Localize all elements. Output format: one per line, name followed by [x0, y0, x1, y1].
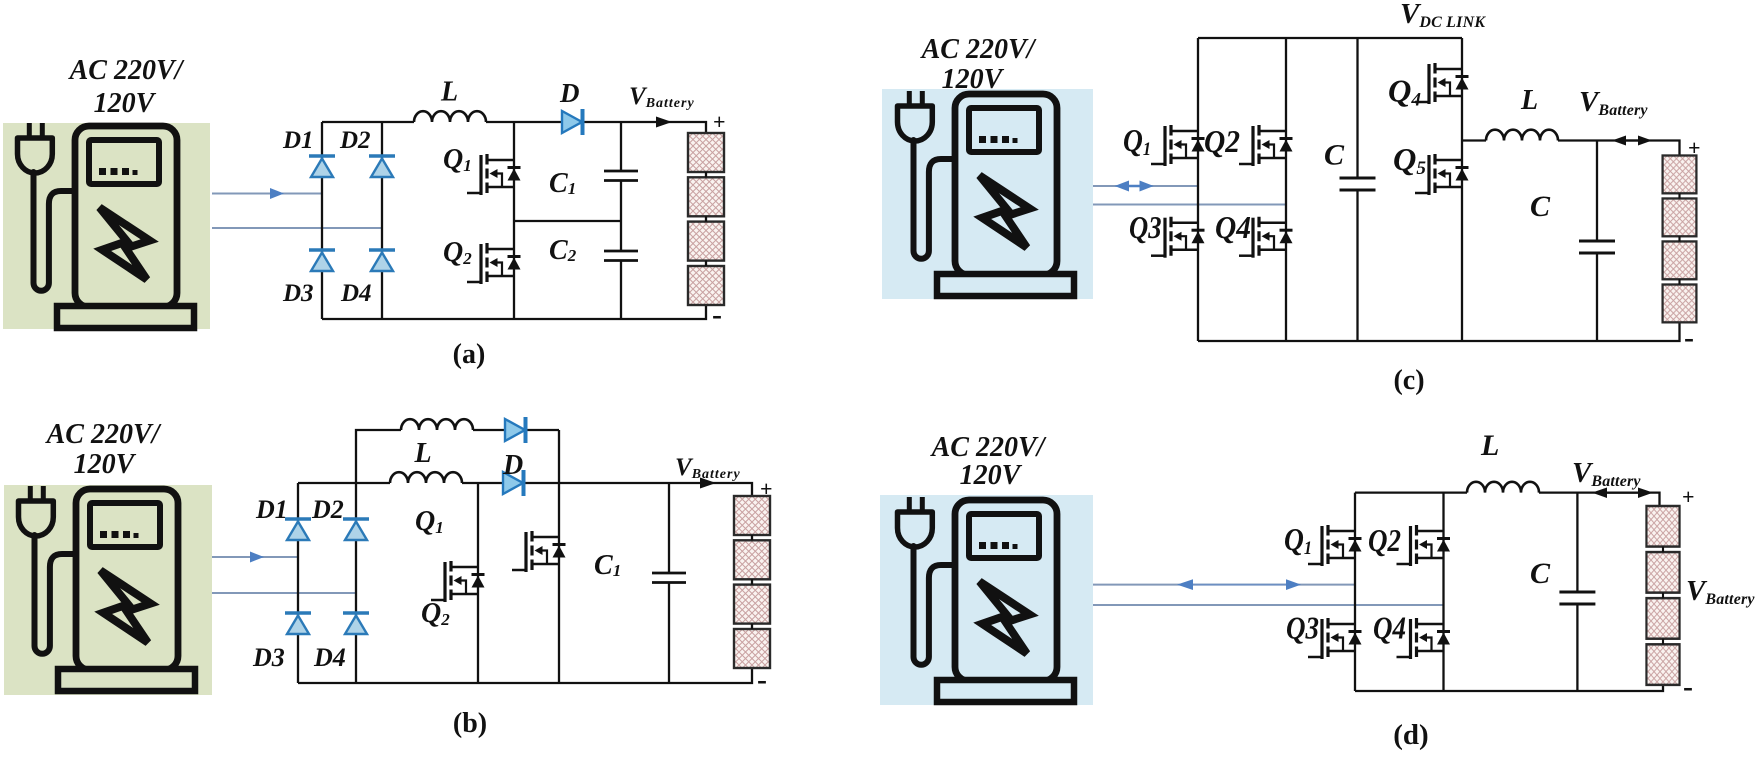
svg-text:Q3: Q3 [1129, 209, 1162, 245]
battery stack (c) [1663, 156, 1697, 323]
wire bridge leg 1 (d) [1354, 493, 1356, 691]
wire AC line lower (a) [212, 227, 382, 229]
svg-text:-: - [1684, 321, 1694, 354]
subfigure (b) [4, 417, 773, 739]
wire bridge leg 2 (d) [1442, 493, 1444, 691]
svg-text:Q1: Q1 [415, 506, 444, 537]
wire AC line upper (c) [1093, 185, 1198, 187]
svg-text:+: + [713, 109, 726, 134]
arrow output (b) [700, 478, 716, 489]
svg-text:-: - [712, 298, 722, 331]
wire bottom rail (d) [1355, 685, 1663, 691]
wire top rail (c) [1198, 37, 1462, 39]
charging station icon (a) [18, 123, 195, 328]
subfigure (a) [3, 55, 726, 370]
diode D3 (b) [285, 613, 311, 634]
transistor Q1 (a) [467, 154, 521, 195]
svg-text:Q1: Q1 [1284, 521, 1312, 559]
wire output mid (c) [1462, 141, 1680, 156]
diode D lower (b) [503, 470, 524, 496]
svg-text:D: D [559, 78, 580, 108]
svg-text:Q2: Q2 [443, 237, 472, 268]
svg-text:Q1: Q1 [1123, 122, 1151, 160]
svg-text:+: + [760, 476, 773, 501]
svg-text:D3: D3 [252, 643, 285, 672]
wire bridge right leg (b) [355, 483, 357, 683]
wire mid rail (a) [514, 220, 621, 222]
diode D1 (b) [285, 519, 311, 540]
svg-text:Q4: Q4 [1215, 209, 1251, 245]
arrow output double (d) [1592, 488, 1653, 499]
charging station icon (c) [898, 91, 1075, 296]
svg-text:D: D [502, 450, 523, 481]
transistor Q4 bridge (c) [1239, 217, 1293, 258]
wire buck leg (c) [1461, 38, 1463, 341]
capacitor C (d) [1559, 592, 1595, 604]
transistor Q2 (d) [1397, 525, 1451, 566]
diode D4 (b) [343, 613, 369, 634]
charging station background (d) [880, 495, 1093, 705]
transistor Q3 (c) [1151, 217, 1205, 258]
arrow AC upper (a) [270, 188, 284, 199]
inductor L (a) [414, 111, 486, 122]
svg-text:+: + [1688, 135, 1701, 160]
capacitor C2 (a) [604, 251, 638, 261]
capacitor C1 (b) [652, 573, 686, 583]
svg-text:VBattery: VBattery [1686, 575, 1755, 608]
svg-text:VBattery: VBattery [675, 454, 741, 482]
svg-text:(c): (c) [1393, 365, 1424, 396]
battery stack (b) [734, 496, 770, 668]
wire bottom rail (a) [322, 306, 706, 320]
svg-text:Q2: Q2 [421, 598, 450, 629]
diode D3 [309, 250, 335, 271]
svg-text:L: L [414, 438, 432, 469]
svg-text:C: C [1530, 557, 1551, 590]
svg-text:AC 220V/: AC 220V/ [920, 34, 1037, 65]
svg-text:D4: D4 [313, 643, 346, 672]
svg-text:Q2: Q2 [1204, 123, 1240, 159]
battery stack (a) [688, 133, 724, 305]
subfigure (d) [880, 429, 1755, 751]
diode D (a) [562, 109, 583, 135]
inductor L lower (b) [390, 472, 462, 483]
svg-text:120V: 120V [960, 460, 1023, 491]
transistor Q4 buck (c) [1415, 63, 1469, 104]
svg-text:D3: D3 [282, 280, 314, 307]
wire Q2 leg (b) [477, 483, 479, 683]
wire AC line lower (b) [212, 592, 356, 594]
transistor Q2 (a) [467, 243, 521, 284]
charging station background (b) [4, 485, 212, 695]
svg-text:C: C [1530, 190, 1551, 223]
wire AC line lower (c) [1093, 204, 1286, 206]
capacitor C buck (c) [1579, 241, 1615, 253]
inductor L upper (b) [401, 419, 473, 430]
wire bridge leg 1 (c) [1197, 38, 1199, 341]
battery stack (d) [1646, 506, 1679, 685]
svg-text:D2: D2 [311, 495, 344, 524]
wire Q1 leg (b) [558, 430, 560, 683]
transistor Q2 (b) [431, 561, 485, 602]
inductor L (c) [1486, 130, 1558, 141]
capacitor C dc link (c) [1340, 178, 1376, 190]
svg-text:L: L [440, 77, 458, 108]
svg-text:Q1: Q1 [443, 144, 472, 175]
svg-text:120V: 120V [94, 88, 157, 119]
wire AC line upper (a) [212, 193, 322, 195]
svg-text:Q5: Q5 [1393, 141, 1427, 179]
svg-text:AC 220V/: AC 220V/ [68, 55, 185, 86]
svg-text:L: L [1520, 85, 1538, 116]
wire bridge leg 2 (c) [1285, 38, 1287, 341]
wire switching leg (a) [513, 122, 515, 319]
charging station background (a) [3, 123, 210, 329]
wire upper branch (b) [356, 430, 559, 483]
wire top rail (a) [322, 122, 706, 133]
svg-text:+: + [1682, 484, 1695, 509]
svg-text:AC 220V/: AC 220V/ [930, 432, 1047, 463]
svg-text:D1: D1 [282, 127, 314, 154]
charging station icon (b) [19, 486, 196, 691]
svg-text:-: - [1683, 670, 1693, 703]
charging station background (c) [882, 89, 1093, 299]
transistor Q3 (d) [1308, 618, 1362, 659]
wire bridge left leg (a) [321, 122, 323, 319]
svg-text:C: C [1324, 139, 1345, 172]
svg-text:L: L [1480, 429, 1499, 462]
wire capacitor leg (a) [620, 122, 622, 319]
diode D2 (b) [343, 519, 369, 540]
svg-text:(d): (d) [1393, 719, 1428, 751]
svg-text:(b): (b) [453, 708, 487, 739]
arrow output double (c) [1612, 136, 1652, 146]
arrow AC double (d) [1177, 579, 1301, 590]
transistor Q4 (d) [1397, 618, 1451, 659]
subfigure (c) [882, 0, 1701, 396]
diode D4 [369, 250, 395, 271]
svg-text:(a): (a) [453, 339, 486, 370]
svg-text:D2: D2 [339, 127, 371, 154]
wire bridge right leg (a) [381, 122, 383, 319]
svg-text:D1: D1 [255, 495, 288, 524]
transistor Q1 (d) [1308, 525, 1362, 566]
wire buck cap leg (c) [1596, 141, 1598, 342]
diode D upper (b) [505, 417, 526, 443]
wire bridge left leg (b) [297, 483, 299, 683]
arrow output (a) [656, 117, 672, 128]
transistor Q5 (c) [1415, 154, 1469, 195]
charging station icon (d) [898, 497, 1075, 702]
svg-text:Q2: Q2 [1368, 522, 1401, 558]
svg-text:C1: C1 [549, 168, 576, 199]
inductor L (d) [1467, 482, 1539, 493]
svg-text:VBattery: VBattery [629, 83, 695, 111]
transistor Q1 (c) [1151, 125, 1205, 166]
svg-text:D4: D4 [340, 280, 372, 307]
svg-text:VDC LINK: VDC LINK [1400, 0, 1486, 31]
wire AC line upper (b) [212, 556, 298, 558]
svg-text:VBattery: VBattery [1579, 86, 1648, 119]
diode D2 [369, 156, 395, 177]
svg-text:AC 220V/: AC 220V/ [45, 419, 162, 450]
wire top rail (d) [1355, 493, 1660, 506]
svg-text:C2: C2 [549, 235, 577, 266]
diode D1 [309, 156, 335, 177]
wire dc link cap leg (c) [1356, 38, 1358, 341]
transistor Q2 (c) [1239, 125, 1293, 166]
wire cap leg (d) [1576, 493, 1578, 691]
wire bottom rail (b) [298, 668, 752, 683]
svg-text:VBattery: VBattery [1572, 457, 1641, 490]
wire capacitor leg (b) [668, 483, 670, 683]
svg-text:C1: C1 [594, 550, 621, 581]
svg-text:120V: 120V [942, 64, 1005, 95]
wire main rail (b) [298, 483, 752, 496]
arrow AC upper (b) [250, 552, 264, 563]
wire AC line upper (d) [1093, 584, 1355, 586]
svg-text:Q3: Q3 [1286, 610, 1319, 646]
svg-text:Q4: Q4 [1373, 610, 1406, 646]
svg-text:-: - [757, 663, 767, 696]
arrow AC double (c) [1115, 181, 1154, 192]
transistor Q1 (b) [512, 531, 566, 572]
svg-text:120V: 120V [74, 449, 137, 480]
wire AC line lower (d) [1093, 604, 1444, 606]
wire bottom rail (c) [1198, 322, 1680, 341]
capacitor C1 (a) [604, 171, 638, 181]
svg-text:Q4: Q4 [1388, 73, 1421, 111]
